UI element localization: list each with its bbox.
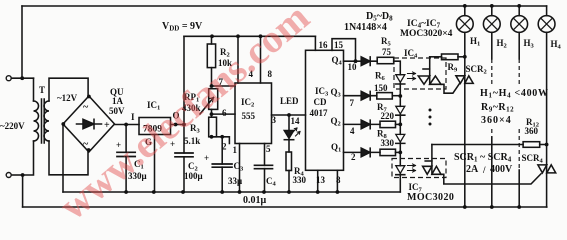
- svg-text:3: 3: [272, 115, 277, 125]
- svg-text:+: +: [204, 153, 209, 163]
- svg-text:1A: 1A: [112, 96, 124, 106]
- svg-text:16: 16: [319, 40, 329, 50]
- svg-text:H3: H3: [524, 38, 535, 50]
- svg-text:C4: C4: [266, 176, 277, 188]
- svg-text:~220V: ~220V: [0, 121, 25, 131]
- svg-text:2: 2: [351, 152, 356, 162]
- svg-text:LED: LED: [280, 96, 299, 106]
- svg-text:R9: R9: [448, 62, 459, 74]
- svg-text:330: 330: [381, 138, 395, 148]
- svg-text:14: 14: [291, 116, 301, 126]
- svg-text:R5: R5: [381, 36, 392, 48]
- svg-text:360×4: 360×4: [481, 115, 512, 126]
- svg-text:VDD = 9V: VDD = 9V: [162, 21, 203, 33]
- svg-text:8: 8: [336, 175, 341, 185]
- svg-text:/: /: [482, 165, 486, 175]
- svg-text:R6: R6: [375, 71, 386, 83]
- svg-text:SCR2: SCR2: [466, 64, 487, 76]
- svg-text:CD: CD: [314, 97, 327, 107]
- svg-text:50V: 50V: [109, 106, 125, 116]
- svg-text:0.01μ: 0.01μ: [243, 195, 267, 206]
- svg-text:Q3: Q3: [331, 87, 342, 99]
- svg-text:100μ: 100μ: [184, 171, 203, 181]
- svg-text:555: 555: [242, 111, 256, 121]
- svg-text:H2: H2: [497, 38, 507, 50]
- svg-text:150: 150: [374, 83, 388, 93]
- svg-text:1N4148×4: 1N4148×4: [344, 22, 387, 33]
- svg-text:MOC3020×4: MOC3020×4: [400, 29, 453, 39]
- svg-text:2A: 2A: [466, 164, 479, 175]
- svg-text:~: ~: [83, 102, 89, 113]
- svg-text:~: ~: [83, 139, 89, 150]
- svg-text:7: 7: [350, 98, 355, 108]
- svg-text:400V: 400V: [490, 164, 513, 175]
- svg-text:75: 75: [382, 47, 392, 57]
- svg-text:~12V: ~12V: [57, 93, 78, 103]
- svg-text:10: 10: [348, 62, 358, 72]
- svg-text:I: I: [131, 112, 135, 122]
- svg-text:Q4: Q4: [332, 55, 343, 67]
- svg-text:SCR4: SCR4: [522, 153, 544, 165]
- svg-text:2: 2: [222, 142, 227, 152]
- svg-text:IC4~IC7: IC4~IC7: [407, 19, 441, 30]
- svg-text:Q2: Q2: [331, 116, 341, 128]
- svg-text:IC3: IC3: [315, 86, 329, 98]
- svg-text:D5~D8: D5~D8: [366, 11, 393, 23]
- svg-text:6: 6: [222, 108, 227, 118]
- svg-text:IC4: IC4: [404, 48, 418, 60]
- svg-text:MOC3020: MOC3020: [407, 192, 454, 203]
- svg-text:T: T: [39, 85, 45, 95]
- svg-text:SCR1 ~ SCR4: SCR1 ~ SCR4: [454, 152, 512, 164]
- svg-text:33μ: 33μ: [228, 176, 242, 186]
- svg-text:+: +: [104, 120, 110, 131]
- svg-text:Q1: Q1: [331, 142, 341, 154]
- svg-text:8: 8: [268, 69, 273, 79]
- svg-text:1: 1: [233, 145, 238, 155]
- svg-text:H1: H1: [470, 36, 480, 48]
- svg-text:4: 4: [350, 126, 355, 136]
- svg-text:330: 330: [293, 175, 307, 185]
- svg-text:5: 5: [266, 144, 271, 154]
- svg-text:4017: 4017: [310, 108, 329, 118]
- svg-text:IC2: IC2: [241, 97, 254, 109]
- svg-text:13: 13: [316, 175, 326, 185]
- svg-text:H4: H4: [551, 39, 562, 51]
- svg-text:15: 15: [334, 40, 344, 50]
- svg-text:C3: C3: [234, 161, 245, 173]
- svg-text:220: 220: [381, 111, 395, 121]
- svg-text:360: 360: [525, 126, 539, 136]
